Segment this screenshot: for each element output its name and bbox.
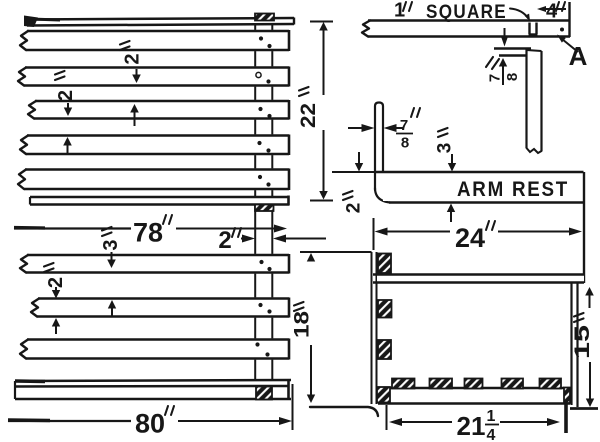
svg-text:80: 80 bbox=[135, 409, 165, 439]
svg-text:8: 8 bbox=[504, 73, 521, 81]
svg-text:22: 22 bbox=[297, 103, 320, 128]
svg-text:ARM REST: ARM REST bbox=[457, 177, 569, 201]
svg-text:1: 1 bbox=[487, 408, 496, 425]
svg-text:4: 4 bbox=[487, 427, 496, 442]
svg-text:2: 2 bbox=[344, 203, 365, 214]
svg-text:2: 2 bbox=[218, 227, 231, 254]
svg-text:2: 2 bbox=[45, 277, 67, 288]
svg-text:78: 78 bbox=[133, 218, 163, 248]
svg-text:3: 3 bbox=[100, 239, 122, 250]
svg-text:2: 2 bbox=[55, 90, 77, 101]
svg-text:3: 3 bbox=[435, 143, 456, 154]
svg-text:21: 21 bbox=[457, 411, 486, 441]
svg-text:15: 15 bbox=[571, 325, 594, 359]
svg-text:7: 7 bbox=[487, 74, 504, 82]
svg-text:SQUARE: SQUARE bbox=[426, 1, 507, 23]
svg-text:2: 2 bbox=[122, 53, 144, 64]
svg-text:7: 7 bbox=[400, 117, 408, 134]
svg-text:18: 18 bbox=[291, 311, 314, 338]
svg-text:8: 8 bbox=[401, 135, 409, 152]
svg-text:24: 24 bbox=[455, 223, 485, 253]
